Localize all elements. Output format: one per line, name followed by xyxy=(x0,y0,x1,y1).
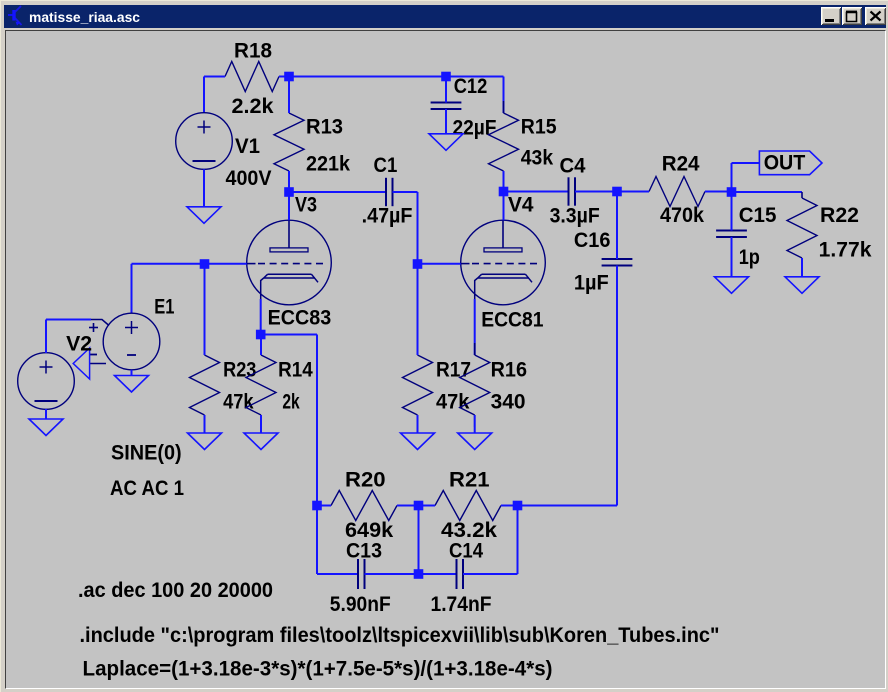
E1 control bottom lead xyxy=(90,363,106,365)
svg-text:R13: R13 xyxy=(306,116,343,139)
label 649k value xyxy=(345,519,394,542)
wire C13 left leg xyxy=(317,506,358,575)
wire C13 right to mid xyxy=(365,573,419,575)
directive .ac xyxy=(78,579,273,602)
svg-text:V3: V3 xyxy=(295,194,317,217)
wire V1 bottom xyxy=(203,169,205,207)
svg-text:C1: C1 xyxy=(374,154,398,177)
title bar xyxy=(4,5,886,28)
label 2.2k value xyxy=(232,95,274,118)
junction V3 plate node xyxy=(284,187,294,197)
junction feedback right xyxy=(513,501,523,511)
wire V4 plate xyxy=(503,192,505,221)
ground under R17 xyxy=(401,433,435,450)
dependent source E1 xyxy=(103,313,160,370)
resistor R14 xyxy=(246,335,276,434)
svg-text:2.2k: 2.2k xyxy=(232,95,274,118)
label R16 340 value xyxy=(491,391,526,414)
wire V3 cathode down xyxy=(260,299,262,335)
svg-text:E1: E1 xyxy=(154,296,174,319)
svg-text:R21: R21 xyxy=(449,469,490,492)
resistor R23 xyxy=(190,264,220,433)
svg-text:R16: R16 xyxy=(491,359,527,382)
wire V3 grid xyxy=(205,263,247,265)
voltage source V2 xyxy=(18,353,75,410)
label 1uF value xyxy=(574,272,609,295)
LTspice app icon xyxy=(1,1,31,31)
wire V4 grid xyxy=(418,263,461,265)
wire cathode node to feedback xyxy=(261,335,317,506)
label R21 xyxy=(449,469,490,492)
label 5.90nF value xyxy=(330,593,391,616)
wire top rail to C12 xyxy=(289,76,446,78)
label R23 47k value xyxy=(223,391,254,414)
svg-text:R22: R22 xyxy=(820,204,859,227)
label C16 xyxy=(574,229,611,252)
node N001 junction R18/R13/C12 rail xyxy=(284,72,294,82)
wire to OUT flag xyxy=(732,163,760,192)
svg-text:R17: R17 xyxy=(436,359,471,382)
wire rail C12 to R15 corner xyxy=(446,77,504,114)
label R14 2k value xyxy=(282,391,300,414)
resistor R20 xyxy=(317,491,419,521)
label R20 xyxy=(345,469,386,492)
junction output node xyxy=(612,187,622,197)
label R16 xyxy=(491,359,527,382)
flag OUT xyxy=(759,151,822,175)
ground under R23 xyxy=(188,433,222,450)
label 3.3uF value xyxy=(550,205,600,228)
svg-text:1µF: 1µF xyxy=(574,272,609,295)
label R17 xyxy=(436,359,471,382)
svg-text:43k: 43k xyxy=(521,147,554,170)
capacitor C1 xyxy=(386,178,393,206)
svg-text:R23: R23 xyxy=(223,359,256,382)
resistor R22 xyxy=(787,192,817,277)
triode V4 xyxy=(461,220,546,305)
svg-text:Laplace=(1+3.18e-3*s)*(1+7.5e-: Laplace=(1+3.18e-3*s)*(1+7.5e-5*s)/(1+3.… xyxy=(83,658,553,681)
svg-text:221k: 221k xyxy=(306,153,350,176)
label OUT xyxy=(764,152,806,175)
junction V4 plate node xyxy=(499,187,509,197)
svg-text:1.74nF: 1.74nF xyxy=(431,593,492,616)
svg-text:470k: 470k xyxy=(660,204,704,227)
close button xyxy=(865,7,886,25)
label V2 xyxy=(66,333,92,356)
E1 chevron arrow xyxy=(73,348,89,379)
ground under R14 xyxy=(244,433,278,450)
svg-text:C12: C12 xyxy=(454,75,488,98)
ground under C12 xyxy=(429,134,463,151)
resistor R18 xyxy=(211,62,291,92)
svg-text:R14: R14 xyxy=(278,359,313,382)
wire feedback right to C16 bus xyxy=(518,505,618,507)
label ECC81 xyxy=(481,309,544,332)
label C15 xyxy=(739,204,777,227)
label R17 47k value xyxy=(436,391,470,414)
E1 control minus xyxy=(89,354,97,356)
svg-text:1.77k: 1.77k xyxy=(819,239,872,262)
svg-text:SINE(0): SINE(0) xyxy=(111,442,182,465)
wire mid down xyxy=(418,510,420,574)
junction feedback left xyxy=(312,501,322,511)
label 43k value xyxy=(521,147,554,170)
label R22 xyxy=(820,204,859,227)
svg-text:C16: C16 xyxy=(574,229,611,252)
label C13 xyxy=(346,540,382,563)
svg-text:V1: V1 xyxy=(235,135,260,158)
wire C4 to out node xyxy=(575,191,617,193)
ground under R16 xyxy=(458,433,492,450)
label R23 xyxy=(223,359,256,382)
svg-text:ECC83: ECC83 xyxy=(268,307,332,330)
label SINE(0) xyxy=(111,442,182,465)
svg-text:ECC81: ECC81 xyxy=(481,309,544,332)
voltage source V1 xyxy=(176,113,233,170)
label .47uF value xyxy=(362,205,413,228)
svg-text:3.3µF: 3.3µF xyxy=(550,205,600,228)
ground under V1 xyxy=(187,207,221,224)
label C12 xyxy=(454,75,488,98)
label 1.77k value xyxy=(819,239,872,262)
wire C1 right to V4 grid node xyxy=(393,192,418,264)
svg-text:5.90nF: 5.90nF xyxy=(330,593,391,616)
label 22uF value xyxy=(453,117,497,140)
wire out node to R22 xyxy=(732,191,803,193)
label R18 xyxy=(234,40,272,63)
wire E1 to grid node xyxy=(132,264,205,313)
svg-text:.ac dec 100 20 20000: .ac dec 100 20 20000 xyxy=(78,579,273,602)
svg-text:1p: 1p xyxy=(739,246,760,269)
wire plate node to C1 xyxy=(289,191,386,193)
label R24 xyxy=(662,153,700,176)
label E1 xyxy=(154,296,174,319)
wire C14 right leg xyxy=(463,510,518,574)
label C4 xyxy=(560,155,586,178)
E1 control top lead xyxy=(91,320,109,326)
label 1.74nF value xyxy=(431,593,492,616)
resistor R15 xyxy=(489,101,519,192)
resistor R24 xyxy=(617,177,732,207)
junction V4 grid node xyxy=(413,259,423,269)
wire R15 node to C4 xyxy=(504,191,569,193)
capacitor C12 xyxy=(431,77,462,134)
capacitor C16 xyxy=(602,192,633,506)
label 470k value xyxy=(660,204,704,227)
svg-text:.include "c:\program files\too: .include "c:\program files\toolz\ltspice… xyxy=(80,624,720,647)
svg-text:400V: 400V xyxy=(226,167,272,190)
svg-text:R18: R18 xyxy=(234,40,272,63)
wire V2 bottom xyxy=(45,409,47,419)
junction at C12 top xyxy=(441,72,451,82)
junction V3 cathode node xyxy=(256,330,266,340)
svg-text:R20: R20 xyxy=(345,469,386,492)
svg-text:C15: C15 xyxy=(739,204,777,227)
svg-text:C4: C4 xyxy=(560,155,586,178)
minimize button xyxy=(821,7,841,25)
wire V1 top to R18 xyxy=(204,77,211,113)
svg-text:C14: C14 xyxy=(449,540,483,563)
resistor R13 xyxy=(274,77,304,193)
svg-text:47k: 47k xyxy=(223,391,254,414)
ground under R22 xyxy=(785,277,819,294)
directive .include xyxy=(80,624,720,647)
label 1p value xyxy=(739,246,760,269)
wire E1 bottom xyxy=(131,370,133,376)
svg-text:R15: R15 xyxy=(521,116,557,139)
svg-text:.47µF: .47µF xyxy=(362,205,413,228)
svg-text:2k: 2k xyxy=(282,391,300,414)
label 43.2k value xyxy=(441,519,497,542)
wire V3 plate xyxy=(288,192,290,220)
label R13 xyxy=(306,116,343,139)
label R15 xyxy=(521,116,557,139)
capacitor C15 xyxy=(716,192,747,277)
ground under V2 xyxy=(29,419,63,436)
junction R24 output xyxy=(727,187,737,197)
svg-text:C13: C13 xyxy=(346,540,382,563)
triode V3 xyxy=(247,220,332,305)
wire V2 plus to E1 control xyxy=(46,320,91,354)
label V4 xyxy=(508,194,534,217)
wire V4 cathode down xyxy=(474,299,476,355)
ground under C15 xyxy=(715,277,749,294)
svg-text:AC AC 1: AC AC 1 xyxy=(110,477,184,500)
capacitor C4 xyxy=(569,177,576,205)
junction V3 grid node xyxy=(200,259,210,269)
label V1 xyxy=(235,135,260,158)
svg-text:340: 340 xyxy=(491,391,526,414)
junction feedback mid xyxy=(414,501,424,511)
capacitor C13 xyxy=(358,559,365,589)
E1 control plus xyxy=(89,323,98,332)
svg-text:R24: R24 xyxy=(662,153,700,176)
label V3 xyxy=(295,194,317,217)
label AC AC 1 xyxy=(110,477,184,500)
svg-text:OUT: OUT xyxy=(764,152,806,175)
label C1 xyxy=(374,154,398,177)
label 221k value xyxy=(306,153,350,176)
junction bottom mid xyxy=(414,569,424,579)
svg-text:V2: V2 xyxy=(66,333,92,356)
maximize button xyxy=(842,7,862,25)
resistor R17 xyxy=(403,264,433,433)
label C14 xyxy=(449,540,483,563)
wire C14 left leg xyxy=(419,573,457,575)
resistor R16 xyxy=(460,343,490,433)
svg-text:V4: V4 xyxy=(508,194,534,217)
directive Laplace xyxy=(83,658,553,681)
label ECC83 xyxy=(268,307,332,330)
label R14 xyxy=(278,359,313,382)
label 400V value xyxy=(226,167,272,190)
resistor R21 xyxy=(419,491,518,521)
ground under E1 xyxy=(115,376,149,393)
capacitor C14 xyxy=(457,559,464,589)
